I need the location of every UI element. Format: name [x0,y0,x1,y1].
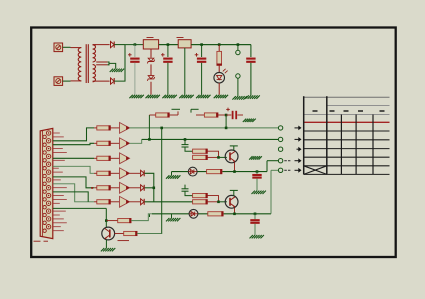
resistor R13 [97,171,111,175]
value label U2 [177,37,184,39]
optocoupler LED B [189,209,198,218]
ground CB3 [250,235,253,238]
wire CA to RtopA [185,147,193,151]
wire LED to ground [218,83,220,95]
capacitor CA plates [184,139,186,144]
node Q2 emitter junction [233,170,236,173]
terminal J1 [54,43,63,52]
diode D7 [130,187,141,189]
node base A junction [217,156,220,159]
resistor RX [118,219,131,223]
wire RY to net1 vertical [137,233,162,235]
ground stray stage A [249,156,252,159]
capacitor CB3 [250,219,259,221]
wire C3 to ground [201,63,203,95]
wire line B left tick [149,214,151,217]
wire secondary center taps [96,61,107,63]
ground below C4 [245,95,248,98]
buffer U3A [120,123,130,134]
wire U2 ground pin [184,48,186,95]
arrow net1 [295,127,300,129]
wire rail to R7 [218,45,220,52]
table column vertical lines [340,115,342,175]
wire J2 to transformer primary bottom [63,80,71,82]
wire D8 output line [145,201,193,203]
wire Q3 emitter down [234,208,236,214]
wire C1 to ground [134,63,136,95]
node Q3 emitter junction [233,213,236,216]
connector J3 pins [46,131,50,135]
wire buffer A output line net1 [130,127,279,129]
port net2 [278,137,282,141]
wire pin7 to R12 [53,157,94,159]
resistor RtopA [193,149,208,153]
wire line A left end to ground [171,172,173,176]
ground transformer center tap [110,69,113,72]
resistor RbotA [193,155,208,159]
capacitor C2 [161,54,165,56]
resistor RA [156,113,170,117]
ground Q1 emitter [101,248,104,251]
wire rail to C2 [167,45,169,57]
buffer U3E [120,182,130,193]
wire CB3 to ground [254,224,256,235]
node net1 junction at bus [160,127,163,130]
wire zener to ground [150,82,152,95]
wire Q1 collector stem [105,221,107,228]
wire rail to C3 [201,45,203,57]
wire CA3 to ground [256,179,258,191]
wire D2 cathode up to +V rail [114,45,125,82]
wire port net4 to V1 [267,160,278,162]
wire Q2 emitter down [234,162,236,171]
capacitor C3 [195,54,199,56]
wire net2 up to RA [148,115,150,139]
diode zener D4 [148,76,154,79]
resistor R10 [97,126,111,130]
transformer TR1 secondary winding lower [93,65,96,82]
table header dashes [313,110,318,112]
wire RbotB to base node [207,201,218,203]
wire C2 to ground [167,63,169,95]
wire port net5 to V2 [271,169,278,171]
resistor R15 [97,200,111,204]
switch contact marks [172,108,181,110]
ground below zeners [146,95,149,98]
node port rail junction [237,43,240,46]
wire pin4 to R11 [53,143,94,144]
wire pin3 to R10 [53,128,94,141]
wire port P2 to ground [237,78,239,96]
ground CA3 [252,191,255,194]
wire RB right lead [218,114,226,116]
wire base node to Q2 [219,156,227,158]
node C2 rail junction [167,43,170,46]
wire CB3 stem [254,214,256,219]
arrow net2 [295,138,300,140]
wire net1 vertical to Q1 base [137,128,161,234]
transistor Q1 [102,227,115,240]
wire Q2 collector to stub [233,146,235,151]
optocoupler LED A [188,167,197,176]
capacitor C1 [128,54,132,56]
value label U1 [147,37,154,39]
wire +V rail top [125,44,251,46]
capacitor C4 [246,58,255,60]
transformer TR1 core [85,44,87,83]
value label RY [118,240,130,242]
transformer TR1 secondary winding upper [93,45,96,62]
port net4 [278,159,282,163]
wire RtopB to base node [207,196,218,202]
connector J3 pin stubs [53,132,60,134]
diode zener D3 [148,58,154,61]
port P2 [236,74,240,78]
wire V1 vertical [266,161,268,172]
capacitor CB [226,108,230,110]
wire pin20 to Q1 collector [53,207,107,209]
wire D7 to or-bus [145,187,154,189]
resistor R11 [97,141,111,145]
wire line A [172,171,189,173]
wire RbotA to base node [207,156,218,158]
buffer U3D [120,168,130,179]
buffer U3C [120,153,130,164]
ground below LED [214,95,217,98]
terminal J2 [54,77,63,86]
port net5 [278,168,282,172]
resistor R7 vertical [217,51,222,65]
connector J3 body [40,128,53,238]
wire V2 vertical [270,170,272,214]
ground below C2 [162,95,165,98]
wire between zeners [150,64,152,75]
node cap CB3 junction [254,213,257,216]
capacitor CBk plates [182,188,189,190]
port net1 [278,126,282,130]
diode D2 [111,78,115,84]
buffer U3F [120,196,130,207]
power stub Q3 collector [230,189,238,191]
node cap CA3 junction [256,170,259,173]
diode D8 [130,201,141,203]
ground line A [166,175,169,178]
wire R7 to LED D5 [218,65,220,72]
diode D6 [130,172,141,174]
wire junction to RX [106,220,117,222]
node R14 lead dot [91,187,93,189]
wire pin12 to R14 [53,177,94,188]
wire U1 output [159,44,179,46]
label net5 [284,169,287,171]
arrow net4 [295,160,300,162]
wire RtopA to base node [207,151,218,157]
wire rail to port P1 [237,45,239,51]
wire line B [152,213,189,215]
transformer TR1 primary winding [78,48,81,81]
wire pin16 to R15 second [53,192,88,202]
node or-bus D7 junction [153,187,156,190]
node C3 rail junction [200,43,203,46]
resistor RbotB [193,200,208,204]
ground below C3 [196,95,199,98]
voltage regulator U1 [143,40,158,49]
wire secondary bottom tap to diode D2 [93,80,110,82]
wire Q1 emitter to ground [105,240,107,248]
arrow net5 [295,169,300,171]
wire U1 ground pin to zeners [150,49,152,58]
resistor R14 [97,186,111,190]
resistor RtopB [193,194,208,198]
arrow net3 [297,148,300,150]
wire net2 line [142,138,279,140]
transistor Q3 [225,195,238,208]
wire CA3 stem [256,172,258,174]
table grid horizontal lines [304,96,390,98]
node R7 rail junction [218,43,221,46]
wire center tap to ground [108,62,109,65]
wire buffer B output jog [130,139,142,143]
schematic sheet border frame [31,28,396,258]
wire rail to C1 [134,45,136,57]
wire RX jog to line B [131,214,152,221]
node net2 junction resistor RA [148,138,151,141]
ground below C1 [129,95,132,98]
wire J1 to transformer primary top [63,46,71,48]
node RB capacitor junction [225,114,228,117]
wire D6 to or-bus [145,173,154,202]
node net1 cap junction [225,127,228,130]
wire pin9 to R13 [53,166,94,173]
wire RB left lead [196,114,204,116]
table red row line [304,121,390,123]
resistor RA2 [207,170,222,174]
LED D5 [214,72,225,83]
wire pin13 to R15 [53,184,94,202]
port P1 [236,50,240,54]
voltage regulator U2 [178,40,191,48]
table bold vertical lines [303,96,305,174]
wire RA right lead [169,114,178,116]
diode D1 [111,42,115,48]
wire rail corner to C4 [250,45,252,57]
node net2 capacitor CA junction [184,138,187,141]
node C1 rail junction [134,43,137,46]
wire base node to Q3 [219,201,227,203]
capacitor CA3 [252,174,261,176]
wire U2 output [191,44,251,46]
wire Q3 collector to stub [233,190,235,195]
wire Q1 base lead [114,233,123,235]
ground below U2 [179,95,182,98]
value label J3 [34,240,41,242]
resistor RB [204,113,218,117]
resistor RB2 [208,212,223,216]
resistor R12 [97,156,111,160]
transistor Q2 [225,150,238,163]
ground capacitor CB [243,119,246,122]
node base B junction [217,201,220,204]
buffer U3B [120,138,130,149]
ground line B [166,218,169,221]
wire C4 to ground [250,63,252,96]
ground below port P2 [232,96,235,99]
wire D1 cathode to +V rail [114,44,125,46]
wire line B ground stub [171,214,173,218]
label net4 [284,160,287,162]
power stub Q2 collector [230,145,238,147]
wire CBk to RtopB [185,191,193,195]
wire secondary top tap to diode D1 [93,44,110,46]
wire junction down to net1 [225,115,227,128]
node Q1 collector junction [105,219,108,222]
table crossed cell [304,166,327,175]
resistor RY [124,231,137,235]
port net3 [278,147,282,151]
wire RA left lead [149,114,155,116]
